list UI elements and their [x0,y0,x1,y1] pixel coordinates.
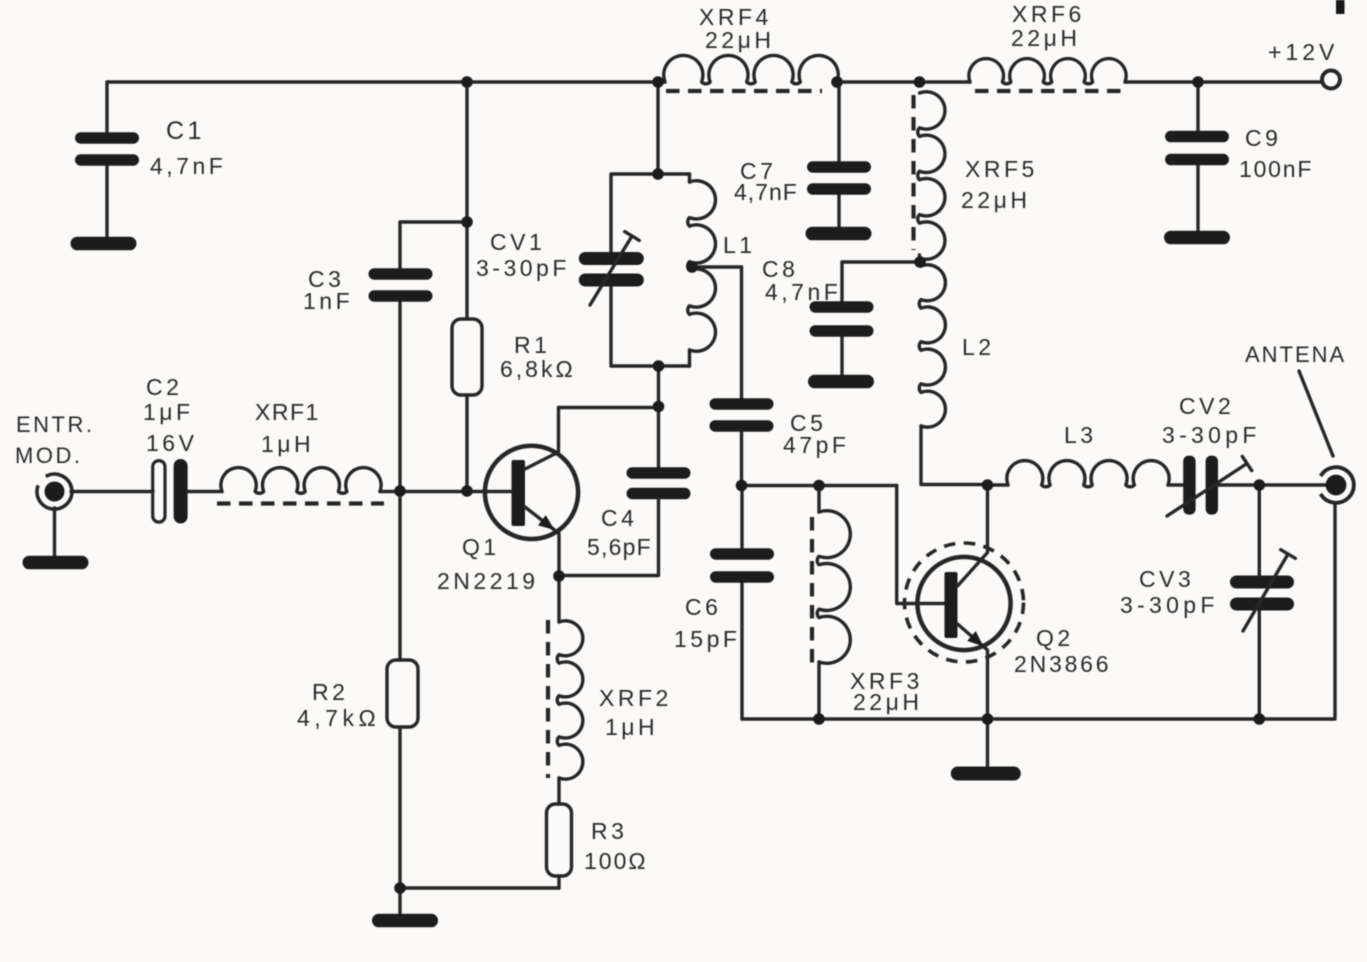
svg-text:CV3: CV3 [1139,566,1194,592]
svg-text:Q1: Q1 [462,534,500,560]
ground C8 [808,375,874,389]
svg-text:ENTR.: ENTR. [16,412,95,437]
wire top rail to +12V terminal [1125,80,1322,83]
svg-text:100Ω: 100Ω [584,848,648,874]
ground input [23,508,89,569]
resistor R2 [387,660,418,727]
wire C5/C6 node to Q2 base corner [742,484,897,487]
svg-text:C4: C4 [601,505,637,531]
inductor XRF4 [664,55,839,83]
svg-text:C2: C2 [146,374,182,400]
inductor XRF6 [969,59,1126,84]
junction collector node [653,401,665,413]
svg-text:CV2: CV2 [1179,393,1234,419]
svg-text:1μH: 1μH [605,714,658,740]
ground C1 [71,237,137,251]
wire collector node to L3 [988,483,1009,486]
wire L3 to CV2 [1168,483,1183,486]
svg-text:4,7nF: 4,7nF [150,153,226,179]
wire base node to R2 [398,491,401,660]
core line XRF1 [217,501,384,505]
svg-text:47pF: 47pF [783,432,849,458]
svg-text:L1: L1 [723,232,756,258]
svg-text:2N3866: 2N3866 [1014,651,1111,677]
junction rail/tank top [652,76,664,88]
wire C4 to emitter node [559,499,659,576]
junction XRF5/L2/C8 node [914,256,926,268]
svg-text:22μH: 22μH [961,187,1030,213]
svg-text:CV1: CV1 [490,229,545,255]
svg-text:22μH: 22μH [705,27,774,53]
wire C5 bottom [740,431,743,486]
svg-text:XRF6: XRF6 [1012,1,1085,27]
svg-text:22μH: 22μH [853,689,922,715]
svg-text:ANTENA: ANTENA [1245,342,1346,367]
wire C6 top [740,486,743,550]
wire emitter to XRF2 [557,576,560,622]
svg-text:1μH: 1μH [261,431,314,457]
junction rail/XRF5 [914,76,926,88]
junction rail/R1 branch [461,76,473,88]
inductor L3 [1007,461,1169,487]
svg-text:3-30pF: 3-30pF [476,255,570,281]
wire tank bottom to C4 [657,366,660,467]
svg-text:MOD.: MOD. [15,443,82,468]
svg-text:3-30pF: 3-30pF [1120,592,1219,618]
wire to Q2 base [897,486,945,604]
capacitor C3 [369,268,433,302]
variable capacitor CV3 [1230,550,1295,631]
svg-text:Q2: Q2 [1036,625,1074,651]
resistor R1 [452,319,482,395]
wire R2 to ground [398,727,401,914]
wire L1 tap to C5 [692,265,742,268]
svg-text:5,6pF: 5,6pF [587,534,652,560]
svg-text:C1: C1 [166,117,205,145]
svg-text:3-30pF: 3-30pF [1162,422,1261,448]
inductor XRF2 [557,621,583,779]
junction C3 branch [461,216,473,228]
svg-text:2N2219: 2N2219 [437,568,539,594]
capacitor C5 [710,398,774,432]
svg-text:1μF: 1μF [143,399,194,425]
wire CV2 to antenna [1218,483,1328,486]
wire tank box top-left [611,174,690,254]
wire C9 [1196,82,1199,230]
junction CV2/CV3 node [1254,479,1266,491]
junction emitter/C4 [553,570,565,582]
wire tank box right leads [688,174,691,366]
inductor L2 [919,265,987,485]
junction XRF3 bottom [813,713,825,725]
wire C8 to ground [840,336,843,375]
svg-text:100nF: 100nF [1239,156,1313,182]
svg-text:C9: C9 [1245,125,1281,151]
inductor XRF1 [221,468,381,494]
capacitor C4 [627,467,691,499]
svg-text:R2: R2 [312,679,348,705]
wire C5 top [740,267,743,399]
svg-text:R3: R3 [591,818,627,844]
wire top rail between XRF4 and XRF6 [837,80,970,83]
svg-text:XRF5: XRF5 [965,156,1038,182]
junction C5/C6 node [736,480,748,492]
capacitor C2 [153,459,188,524]
wire XRF1 to Q1 base [380,490,512,493]
wire C3 to base node [398,301,401,491]
inductor L1 [688,181,716,352]
wire bottom rail to antenna [742,503,1335,719]
svg-text:4,7nF: 4,7nF [734,179,798,205]
core line XRF6 [975,89,1125,93]
wire CV3 top [1258,485,1261,577]
svg-text:XRF1: XRF1 [255,399,320,425]
terminal +12V [1322,71,1340,89]
svg-text:XRF2: XRF2 [599,685,672,711]
core line XRF3 [810,517,814,666]
svg-text:L2: L2 [962,334,995,360]
wire CV3 bottom [1258,609,1261,719]
junction Q2 emitter/ground [982,713,994,725]
svg-text:22μH: 22μH [1011,25,1080,51]
capacitor C8 [810,301,874,337]
core line XRF2 [546,620,550,778]
wire C7 [837,82,840,227]
ground R2/R3 [372,914,438,928]
junction rail/C9 [1192,76,1204,88]
ground C9 [1164,231,1230,245]
svg-text:15pF: 15pF [674,626,740,652]
capacitor C9 [1165,131,1229,166]
page edge mark [1336,0,1345,14]
junction base wire/R1 [461,485,473,497]
wire XRF3 top lead [817,486,820,513]
svg-text:6,8kΩ: 6,8kΩ [500,356,576,382]
svg-text:C6: C6 [685,594,721,620]
capacitor C1 [75,82,139,237]
junction tank box top [652,168,664,180]
connector input jack [37,474,72,509]
wire R3 bottom to R2 ground leg [400,886,559,889]
transistor Q2 [917,486,1010,720]
junction XRF3 top [813,480,825,492]
wire Q1 collector to tank [559,406,659,409]
transistor Q1 [485,408,578,577]
wire rail to tank top [656,82,659,174]
capacitor C7 [807,161,871,195]
ground C7 [806,227,872,241]
variable capacitor CV1 [579,232,644,305]
junction ground wire [394,882,406,894]
junction base wire/R2 [394,485,406,497]
inductor XRF5 [918,92,945,262]
svg-text:R1: R1 [514,332,550,358]
svg-text:4,7kΩ: 4,7kΩ [297,705,380,731]
svg-text:L3: L3 [1064,422,1097,448]
wire R1 to Q1 base node [465,395,468,491]
connector antenna [1321,467,1354,503]
wire top +12V rail left segment [107,80,665,83]
wire XRF2 to R3 [557,778,560,804]
junction CV3 bottom rail [1254,713,1266,725]
svg-text:4,7nF: 4,7nF [765,279,841,305]
junction Q2 collector node [982,479,994,491]
inductor XRF3 [817,511,850,664]
heatsink ring Q2 [905,543,1024,662]
core line XRF4 [666,89,822,93]
pointer line to antenna [1299,371,1333,456]
wire tank box bottom-left [611,285,690,366]
wire rail to R1 [465,82,468,319]
wire R3 to ground leg [557,876,560,888]
wire C6 bottom [740,582,743,719]
junction L1 tap [686,261,698,273]
junction rail/C7 [831,76,843,88]
capacitor C6 [710,548,774,583]
svg-text:1nF: 1nF [303,288,353,314]
junction tank box bottom [653,360,665,372]
core line XRF5 [911,95,915,250]
resistor R3 [547,804,572,876]
wire C3 top branch [400,222,467,269]
variable capacitor CV2 [1167,456,1252,516]
ground Q2 [951,719,1021,781]
svg-text:+12V: +12V [1268,39,1338,65]
wire input to C2 [71,490,153,493]
wire XRF5/L2 node to C8 [842,262,920,302]
wire C2 to XRF1 [188,490,222,493]
wire XRF3 bottom lead [817,662,820,719]
svg-text:16V: 16V [146,430,197,456]
